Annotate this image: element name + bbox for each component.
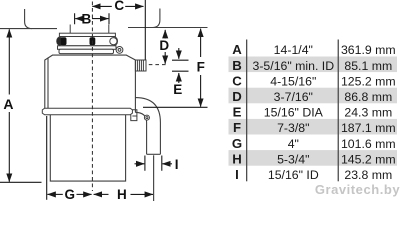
ring end roll left: [57, 38, 64, 45]
lower mount ring: [59, 49, 114, 53]
svg-text:24.3 mm: 24.3 mm: [344, 106, 392, 120]
unit centerline (dashed): [91, 2, 93, 192]
table row B: [232, 58, 392, 73]
discharge elbow: [135, 98, 160, 155]
dimension H: [94, 193, 153, 195]
sink bowl right wall: [128, 9, 208, 28]
svg-text:23.8 mm: 23.8 mm: [344, 168, 392, 182]
lower housing: [50, 115, 125, 181]
svg-text:85.1 mm: 85.1 mm: [344, 59, 392, 73]
svg-text:4": 4": [288, 137, 299, 151]
svg-text:A: A: [3, 96, 13, 112]
svg-text:E: E: [173, 82, 182, 97]
svg-text:F: F: [197, 60, 205, 75]
svg-text:86.8 mm: 86.8 mm: [344, 90, 392, 104]
dimension E: [172, 48, 189, 83]
svg-text:101.6 mm: 101.6 mm: [341, 137, 396, 151]
dimension B: [75, 13, 109, 24]
dimension F: [143, 29, 208, 108]
svg-text:Gravitech.by: Gravitech.by: [315, 182, 400, 197]
table stripe row F: [229, 119, 398, 135]
inlet centerline (dashed): [149, 64, 167, 66]
elbow clamp screw: [144, 115, 149, 120]
disposer upper body: [45, 55, 136, 112]
table divider 2: [338, 40, 339, 182]
svg-text:5-3/4": 5-3/4": [277, 152, 309, 166]
ring end roll right: [110, 38, 117, 45]
svg-text:3-7/16": 3-7/16": [274, 90, 313, 104]
svg-text:125.2 mm: 125.2 mm: [341, 74, 396, 88]
dishwasher inlet tube: [135, 60, 146, 71]
svg-text:D: D: [159, 38, 169, 53]
svg-text:15/16" ID: 15/16" ID: [268, 168, 319, 182]
dimension G: [47, 116, 92, 200]
clamp screw head: [116, 47, 123, 54]
elbow bracket tab: [131, 110, 137, 121]
table row E: [233, 105, 393, 120]
svg-text:H: H: [117, 187, 127, 201]
svg-text:F: F: [233, 120, 241, 135]
svg-text:187.1 mm: 187.1 mm: [341, 121, 396, 135]
table row C: [232, 73, 395, 88]
svg-text:G: G: [232, 136, 242, 151]
svg-text:14-1/4": 14-1/4": [274, 43, 313, 57]
table divider 1: [246, 40, 247, 182]
table row H: [232, 151, 395, 166]
watermark: [315, 182, 400, 197]
svg-text:4-15/16": 4-15/16": [270, 74, 316, 88]
table stripe row B: [229, 57, 398, 73]
drain throat: [70, 25, 109, 34]
body lower band: [42, 108, 132, 115]
mounting screw left: [61, 37, 67, 45]
svg-text:I: I: [235, 167, 239, 182]
mounting screw right: [90, 37, 96, 45]
svg-text:G: G: [65, 187, 76, 201]
svg-text:7-3/8": 7-3/8": [277, 121, 309, 135]
svg-text:361.9 mm: 361.9 mm: [341, 43, 396, 57]
dimension I: [135, 156, 173, 171]
dimension A: [0, 29, 42, 182]
svg-text:C: C: [232, 73, 242, 88]
support ring: [58, 46, 117, 50]
svg-text:3-5/16" min. ID: 3-5/16" min. ID: [253, 59, 335, 73]
tailpipe centerline extension: [153, 155, 155, 201]
svg-text:B: B: [232, 58, 242, 73]
dimension C: [92, 0, 145, 60]
svg-text:D: D: [232, 89, 242, 104]
svg-text:H: H: [232, 151, 242, 166]
svg-text:E: E: [233, 105, 242, 120]
table row I: [235, 167, 392, 182]
table stripe row H: [229, 150, 398, 166]
dimension D: [164, 30, 166, 64]
svg-text:C: C: [114, 0, 124, 13]
table row D: [232, 89, 392, 104]
table stripe row D: [229, 88, 398, 104]
svg-text:15/16" DIA: 15/16" DIA: [264, 106, 324, 120]
svg-text:145.2 mm: 145.2 mm: [341, 152, 396, 166]
sink bowl left wall: [0, 9, 57, 29]
sink flange disc: [59, 33, 115, 36]
table row A: [232, 42, 395, 57]
svg-text:B: B: [82, 12, 92, 27]
table row G: [232, 136, 396, 151]
svg-text:A: A: [232, 42, 242, 57]
mounting ring: [57, 37, 118, 46]
svg-text:I: I: [175, 157, 179, 172]
table row F: [233, 120, 396, 135]
